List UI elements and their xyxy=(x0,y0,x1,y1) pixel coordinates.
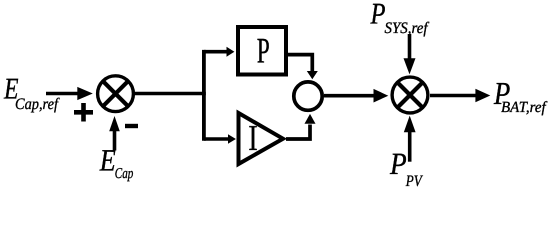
wire output arrow xyxy=(430,89,490,103)
wire branch to P block xyxy=(204,47,234,57)
block P xyxy=(238,27,286,75)
label P_BAT,ref xyxy=(493,75,548,116)
svg-text:E: E xyxy=(99,142,116,177)
summing junction S1 (circle with X) xyxy=(98,76,134,112)
wire adder to multiplier xyxy=(324,89,388,103)
adder node (small circle) xyxy=(294,82,322,110)
svg-text:I: I xyxy=(248,117,257,158)
svg-text:SYS,ref: SYS,ref xyxy=(385,20,430,37)
plus sign xyxy=(74,103,93,122)
label P_PV xyxy=(389,146,423,190)
wire P_SYS,ref down arrow into multiplier xyxy=(404,34,416,74)
svg-text:PV: PV xyxy=(405,173,424,187)
svg-text:BAT,ref: BAT,ref xyxy=(501,99,548,116)
block I (integrator triangle) xyxy=(239,113,284,164)
wire split vertical xyxy=(202,50,206,141)
svg-text:Cap: Cap xyxy=(115,166,134,182)
svg-text:P: P xyxy=(257,31,270,71)
wire branch to I block xyxy=(204,134,236,144)
svg-text:P: P xyxy=(370,0,386,31)
label E_Cap xyxy=(99,142,134,182)
wire input arrow to summing junction S1 xyxy=(46,87,93,100)
label P_SYS,ref xyxy=(370,0,430,37)
minus sign xyxy=(125,124,138,128)
wire P block output elbow down into adder xyxy=(287,55,318,80)
wire E_Cap up arrow into summing junction xyxy=(109,116,120,151)
multiplier junction S2 (circle with X) xyxy=(392,77,428,113)
wire P_PV up arrow into multiplier xyxy=(404,116,416,162)
svg-text:Cap,ref: Cap,ref xyxy=(15,96,60,113)
svg-text:P: P xyxy=(389,146,407,181)
wire summing junction to split node xyxy=(134,92,206,96)
wire I output elbow up into adder xyxy=(286,114,316,139)
label E_Cap,ref xyxy=(3,73,60,113)
